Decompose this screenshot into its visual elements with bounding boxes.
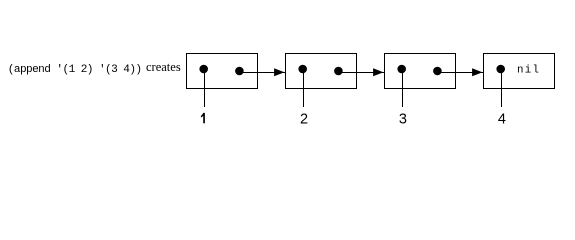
- svg-text:nil: nil: [517, 65, 540, 77]
- svg-text:4: 4: [498, 111, 506, 127]
- svg-text:creates: creates: [146, 60, 181, 74]
- svg-text:2: 2: [300, 111, 308, 127]
- svg-text:3: 3: [399, 111, 407, 127]
- svg-text:(append '(1 2) '(3 4)): (append '(1 2) '(3 4)): [8, 64, 142, 76]
